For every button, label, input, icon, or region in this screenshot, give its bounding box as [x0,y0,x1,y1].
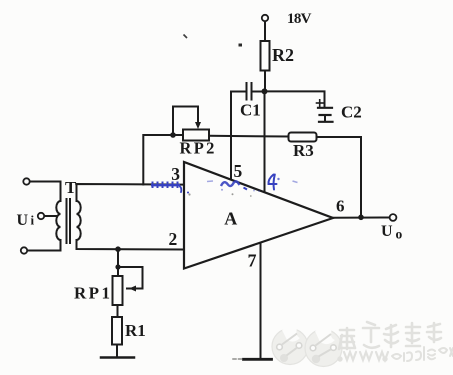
wire RP2 wiper loop with arrow [173,107,198,136]
svg-text:RP1: RP1 [74,284,112,303]
svg-text:5: 5 [234,161,243,181]
wire pin7 vertical [260,244,262,358]
svg-text:T: T [65,178,77,197]
blue pen scribble annotations [151,178,298,194]
node RP2 wiper junction [170,132,176,138]
wire RP1 branch vertical [117,249,119,276]
wire C1 right to junction [252,91,265,93]
node junction RP1 branch [115,246,121,252]
svg-text:U: U [17,212,29,229]
power terminal 18V [262,15,268,21]
wire Ui pointer [45,215,57,217]
transformer T primary winding [56,201,60,240]
wire RP2 to R3 [209,135,289,138]
wire output [333,217,390,219]
wire bottom input to transformer primary [28,240,61,251]
wire pin3 from secondary to op-amp [77,184,185,201]
wire terminal to R2 [264,22,266,42]
svg-text:C1: C1 [240,101,261,120]
ground under C2 [324,115,326,122]
wire C1 left to pin5 [231,91,246,93]
output terminal Uo [390,214,397,221]
op-amp A triangle [184,162,333,269]
wire top input to transformer primary [30,182,61,202]
ground under pin7 [244,358,272,361]
wire pin5 vertical [230,92,232,180]
svg-text:A: A [224,209,237,229]
svg-text:C2: C2 [341,103,362,122]
svg-text:7: 7 [248,251,257,271]
node R2 bottom junction [262,88,268,94]
wire feedback R3 to output [317,137,362,217]
capacitor C2 [318,107,332,109]
capacitor C2 plus sign [317,102,324,104]
capacitor C1 [246,83,248,100]
svg-text:U: U [381,223,393,240]
transformer T secondary winding [77,201,81,240]
stray ink speck [239,44,243,47]
wire R2 to junction [264,71,266,92]
label 4 (blue pen) [268,175,276,190]
svg-text:18V: 18V [287,11,312,27]
wire rail junction to C2 [265,91,325,107]
node output junction [358,215,364,221]
svg-text:RP2: RP2 [180,139,217,158]
svg-text:6: 6 [336,197,345,216]
wire pin4 vertical [264,92,266,191]
ground under R1 [101,356,134,359]
svg-text:2: 2 [169,229,178,249]
potentiometer RP1 [113,276,123,305]
wire RP1 to R1 [117,305,119,317]
node RP1 wiper junction [115,264,120,269]
wire pin2 from secondary to op-amp [77,240,185,250]
svg-text:R2: R2 [272,45,294,65]
input terminal top-left [23,178,29,184]
transformer core [66,199,68,243]
svg-text:i: i [31,213,35,228]
potentiometer RP2 [183,130,209,141]
svg-text:3: 3 [171,164,180,184]
input terminal bottom-left [21,247,27,253]
resistor R2 [261,41,270,71]
wire RP1 wiper loop with arrow [118,267,143,289]
resistor R1 [112,317,122,345]
svg-text:R3: R3 [293,141,314,160]
resistor R3 [289,133,317,142]
wire RP2 drop to pin3 wire [143,135,183,185]
svg-text:R1: R1 [125,321,146,340]
wire R1 to ground [116,345,118,358]
input terminal Ui [38,213,44,219]
svg-text:o: o [396,227,403,242]
